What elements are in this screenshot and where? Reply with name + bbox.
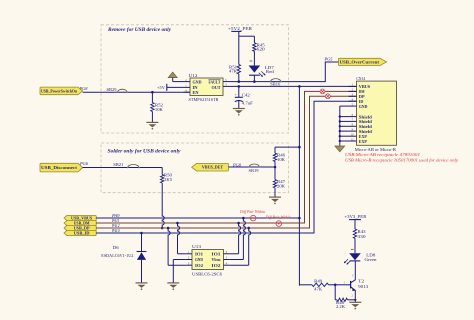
svg-text:PA9: PA9 bbox=[111, 214, 120, 218]
svg-text:EN: EN bbox=[193, 90, 199, 95]
svg-text:GND: GND bbox=[195, 257, 203, 262]
svg-text:+3V3_PER: +3V3_PER bbox=[344, 214, 366, 219]
svg-text:USB_ID: USB_ID bbox=[74, 230, 90, 235]
svg-text:SB16: SB16 bbox=[270, 83, 280, 87]
svg-text:IO1: IO1 bbox=[195, 252, 203, 257]
svg-text:Red: Red bbox=[266, 69, 275, 74]
svg-text:20K: 20K bbox=[277, 184, 285, 189]
svg-text:PA10: PA10 bbox=[111, 229, 119, 233]
svg-text:10K: 10K bbox=[155, 107, 163, 112]
svg-text:PA12: PA12 bbox=[111, 224, 119, 228]
svg-text:USBLC6-2SC6: USBLC6-2SC6 bbox=[192, 271, 223, 276]
svg-text:USB Micro-AB receptacle 478910: USB Micro-AB receptacle 47891001 bbox=[345, 152, 420, 157]
svg-text:IO1: IO1 bbox=[212, 252, 221, 257]
svg-text:PA11: PA11 bbox=[111, 219, 119, 223]
svg-text:GND: GND bbox=[359, 104, 368, 109]
svg-text:SB21: SB21 bbox=[113, 163, 123, 167]
svg-text:T2: T2 bbox=[358, 278, 364, 283]
svg-text:IO2: IO2 bbox=[195, 263, 203, 268]
svg-text:47K: 47K bbox=[229, 69, 237, 74]
svg-text:+: + bbox=[235, 93, 237, 97]
svg-text:U12: U12 bbox=[189, 73, 198, 78]
svg-text:330: 330 bbox=[358, 234, 366, 239]
svg-text:FAULT: FAULT bbox=[209, 79, 221, 84]
svg-text:OUT: OUT bbox=[212, 85, 221, 90]
svg-text:9013: 9013 bbox=[358, 284, 368, 289]
svg-text:Remove for USB device only: Remove for USB device only bbox=[107, 27, 172, 33]
svg-text:620: 620 bbox=[257, 47, 265, 52]
svg-text:1K5: 1K5 bbox=[164, 177, 172, 182]
svg-text:STMPS2151STR: STMPS2151STR bbox=[189, 97, 219, 102]
svg-text:Solder only for USB device onl: Solder only for USB device only bbox=[108, 149, 182, 155]
svg-text:R49: R49 bbox=[314, 279, 322, 284]
svg-text:USB Micro-B receptacle 1050170: USB Micro-B receptacle 1050170001 used f… bbox=[345, 158, 458, 163]
svg-text:C42: C42 bbox=[242, 92, 250, 97]
svg-text:USB_OverCurrent: USB_OverCurrent bbox=[340, 59, 380, 64]
svg-text:VBUS_DET: VBUS_DET bbox=[202, 165, 224, 170]
svg-text:U13: U13 bbox=[192, 244, 201, 249]
svg-text:IO2: IO2 bbox=[212, 263, 221, 268]
svg-text:Green: Green bbox=[365, 257, 378, 262]
svg-text:4.7uF: 4.7uF bbox=[242, 101, 254, 106]
svg-text:CN14: CN14 bbox=[356, 76, 366, 81]
svg-text:USB_Disconnect: USB_Disconnect bbox=[41, 165, 78, 170]
svg-text:ESDALC6V1-1U2: ESDALC6V1-1U2 bbox=[101, 253, 133, 258]
svg-text:GND: GND bbox=[193, 79, 202, 84]
svg-text:USB_PowerSwitchOn: USB_PowerSwitchOn bbox=[41, 88, 78, 93]
svg-text:PG5: PG5 bbox=[323, 56, 333, 61]
svg-text:Diff Pair Within: Diff Pair Within bbox=[265, 215, 291, 219]
svg-text:D6: D6 bbox=[113, 245, 119, 250]
svg-text:10K: 10K bbox=[277, 157, 285, 162]
svg-text:SB19: SB19 bbox=[249, 169, 259, 173]
svg-text:Diff Pair Within: Diff Pair Within bbox=[239, 210, 265, 214]
svg-text:+5V: +5V bbox=[157, 85, 166, 90]
svg-text:SB29: SB29 bbox=[107, 88, 117, 92]
svg-text:+5V2_PER: +5V2_PER bbox=[228, 26, 252, 31]
svg-text:EXP: EXP bbox=[359, 139, 367, 144]
svg-text:Vbus: Vbus bbox=[212, 257, 221, 262]
svg-text:47K: 47K bbox=[314, 287, 322, 292]
svg-text:2.2K: 2.2K bbox=[336, 304, 345, 309]
